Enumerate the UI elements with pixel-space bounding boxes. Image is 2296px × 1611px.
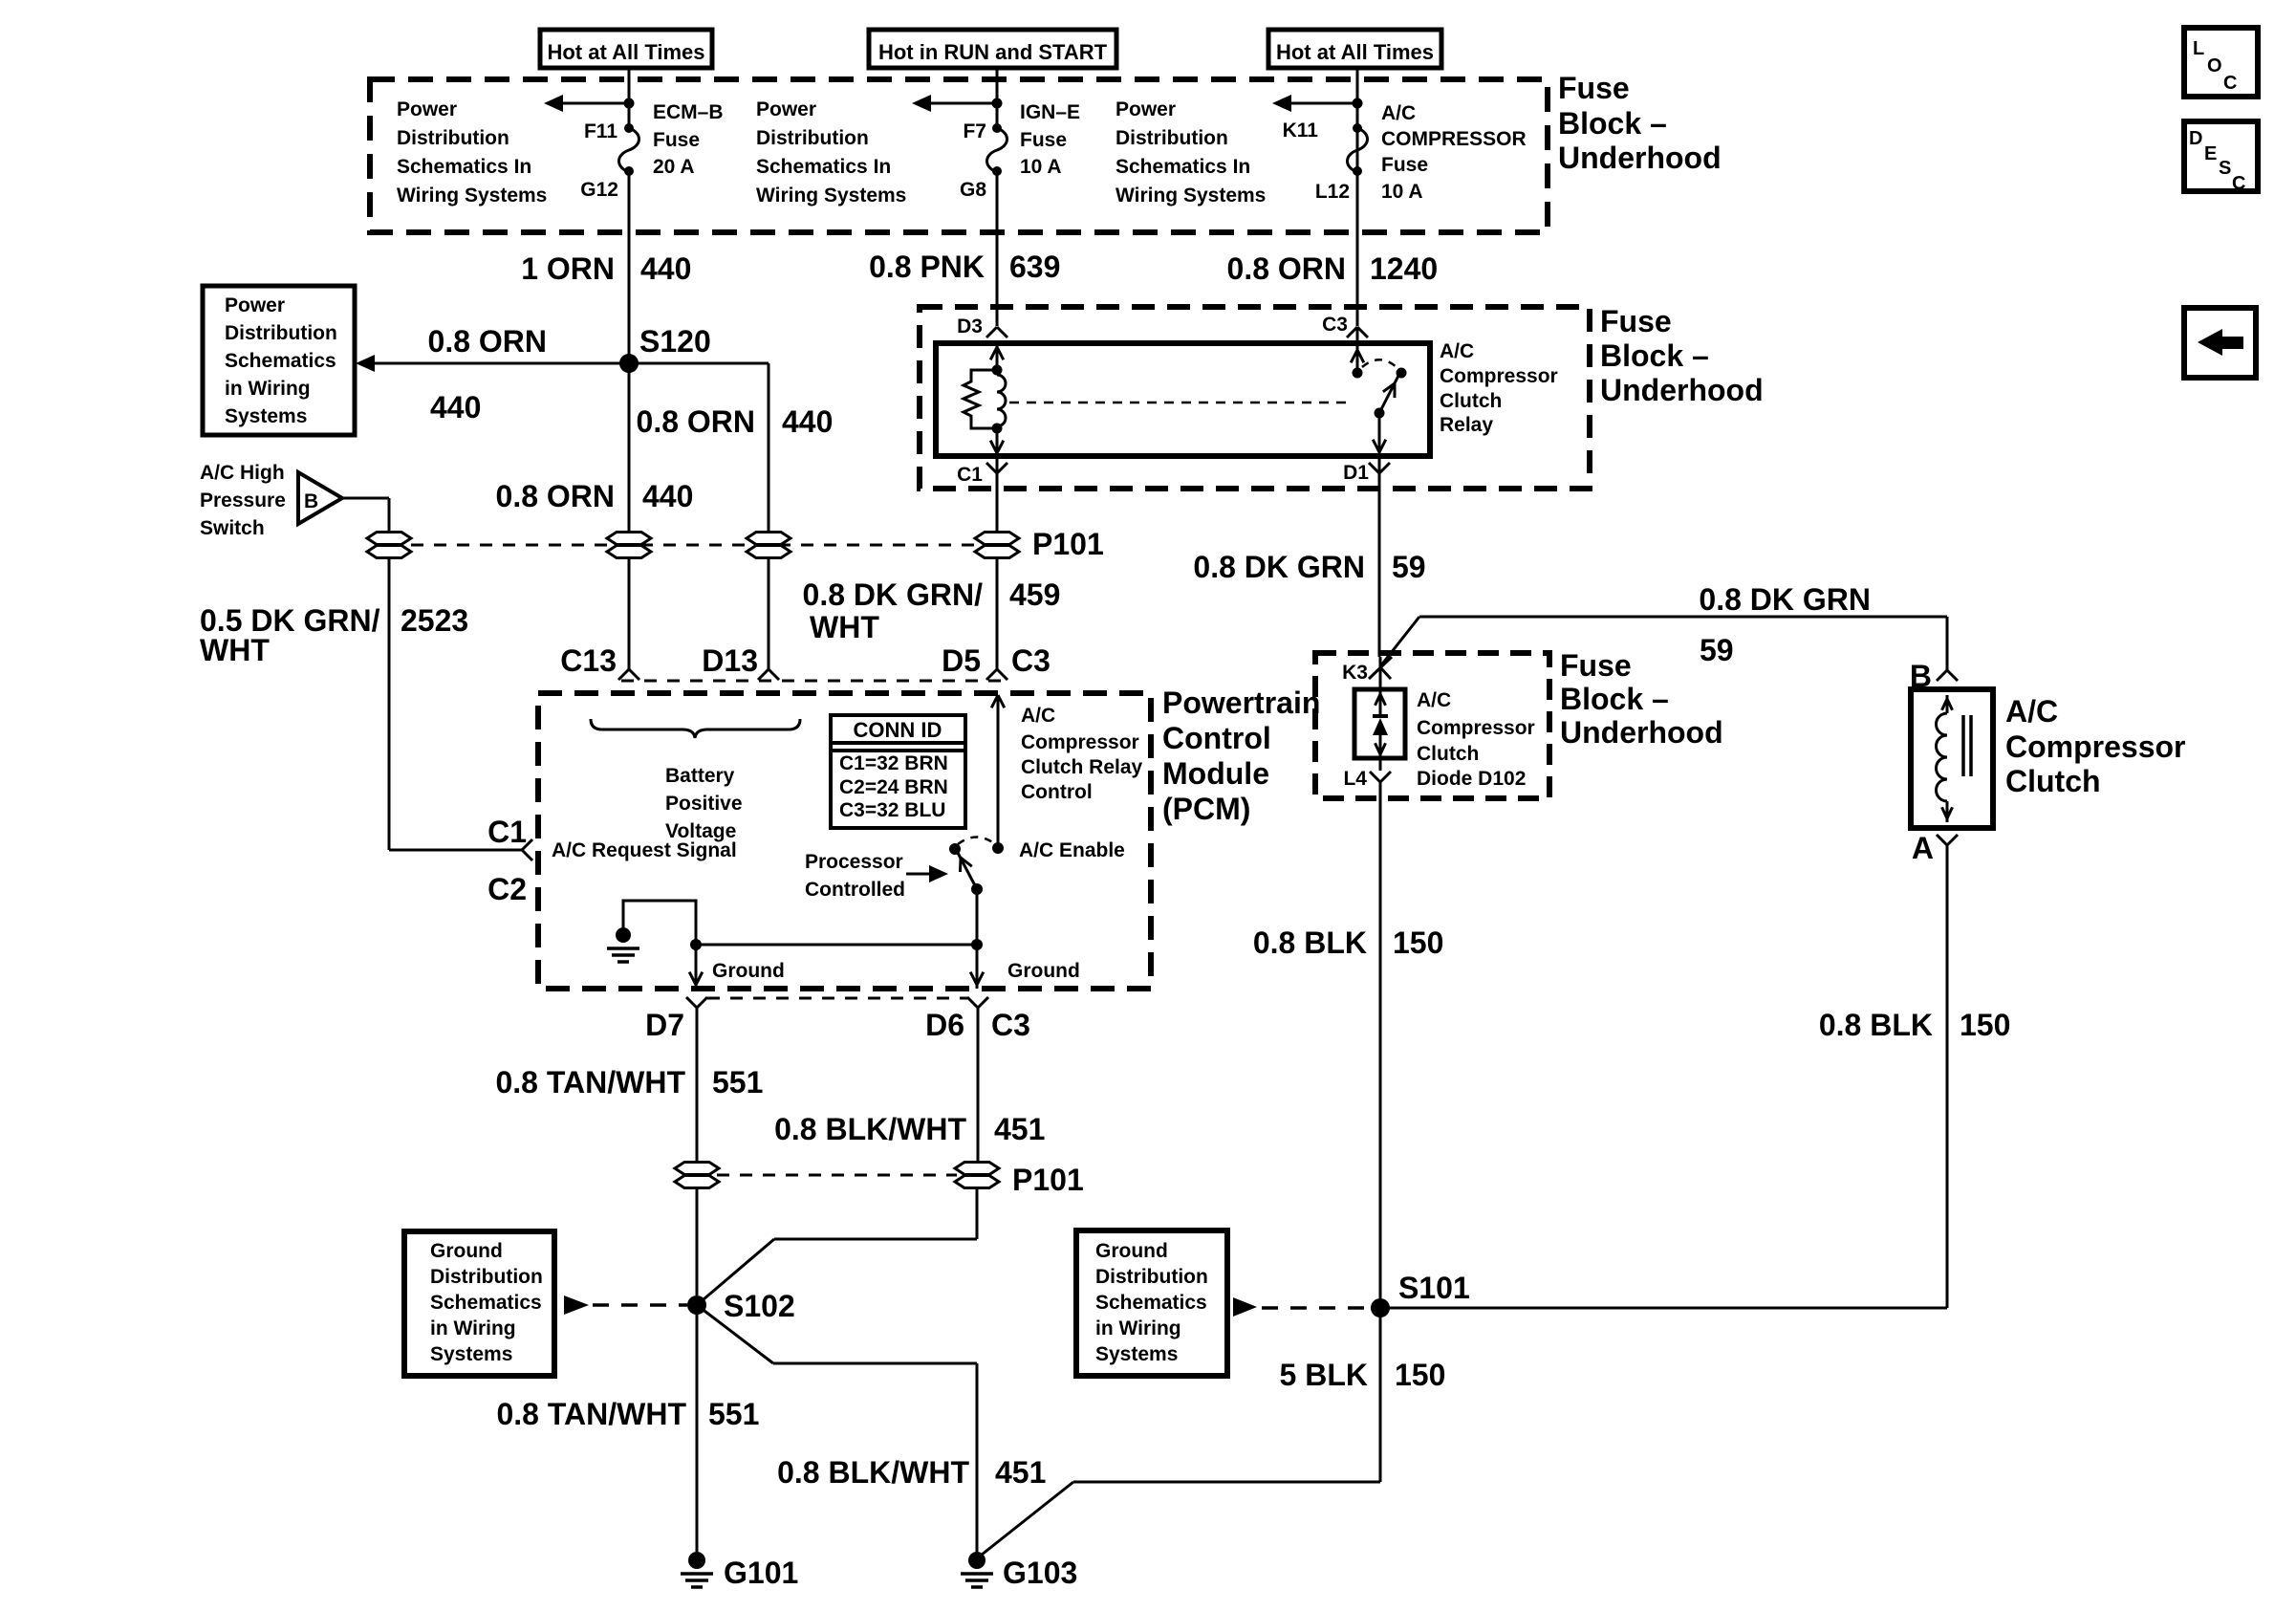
svg-text:Hot at All Times: Hot at All Times bbox=[547, 40, 704, 64]
svg-text:Fuse: Fuse bbox=[1600, 304, 1672, 338]
svg-text:Distribution: Distribution bbox=[225, 322, 337, 344]
svg-text:59: 59 bbox=[1392, 550, 1426, 584]
svg-text:C13: C13 bbox=[560, 643, 617, 678]
svg-text:59: 59 bbox=[1700, 633, 1734, 667]
svg-text:C3=32 BLU: C3=32 BLU bbox=[839, 799, 945, 821]
svg-text:in Wiring: in Wiring bbox=[1095, 1317, 1181, 1339]
svg-text:G12: G12 bbox=[580, 179, 618, 201]
svg-text:10 A: 10 A bbox=[1381, 181, 1423, 203]
svg-text:Schematics In: Schematics In bbox=[756, 156, 891, 178]
svg-text:Processor: Processor bbox=[805, 851, 903, 873]
svg-text:Fuse: Fuse bbox=[653, 129, 700, 151]
svg-text:Module: Module bbox=[1162, 756, 1269, 791]
svg-text:C1: C1 bbox=[487, 815, 527, 849]
svg-text:Power: Power bbox=[225, 294, 285, 316]
svg-text:A/C: A/C bbox=[1381, 102, 1416, 124]
svg-text:0.8 TAN/WHT: 0.8 TAN/WHT bbox=[496, 1397, 686, 1431]
svg-text:S101: S101 bbox=[1398, 1271, 1470, 1305]
svg-text:Systems: Systems bbox=[1095, 1343, 1178, 1365]
svg-text:Schematics: Schematics bbox=[430, 1292, 542, 1314]
svg-text:Pressure: Pressure bbox=[200, 490, 286, 512]
svg-text:Schematics In: Schematics In bbox=[397, 156, 531, 178]
svg-text:Switch: Switch bbox=[200, 517, 265, 539]
svg-text:Ground: Ground bbox=[1007, 960, 1080, 982]
svg-text:L: L bbox=[2193, 38, 2204, 59]
svg-text:Relay: Relay bbox=[1440, 414, 1493, 436]
svg-text:Wiring Systems: Wiring Systems bbox=[756, 185, 906, 207]
svg-text:C3: C3 bbox=[1011, 643, 1051, 678]
svg-text:in Wiring: in Wiring bbox=[430, 1317, 516, 1339]
svg-text:0.8 BLK/WHT: 0.8 BLK/WHT bbox=[774, 1112, 966, 1146]
svg-text:Block –: Block – bbox=[1558, 106, 1667, 141]
svg-text:P101: P101 bbox=[1012, 1163, 1084, 1197]
svg-text:B: B bbox=[304, 490, 318, 512]
svg-text:0.8 ORN: 0.8 ORN bbox=[428, 324, 547, 359]
svg-text:Distribution: Distribution bbox=[1095, 1266, 1208, 1288]
svg-text:Ground: Ground bbox=[1095, 1240, 1168, 1262]
svg-text:G103: G103 bbox=[1003, 1556, 1077, 1590]
svg-text:440: 440 bbox=[642, 479, 693, 513]
svg-text:440: 440 bbox=[640, 251, 691, 286]
svg-text:C: C bbox=[2232, 173, 2245, 194]
svg-text:ECM–B: ECM–B bbox=[653, 101, 724, 123]
svg-text:K3: K3 bbox=[1342, 662, 1368, 684]
svg-text:C1: C1 bbox=[957, 464, 983, 486]
svg-text:A/C Request Signal: A/C Request Signal bbox=[552, 839, 737, 861]
svg-text:0.8 ORN: 0.8 ORN bbox=[637, 404, 755, 439]
svg-text:K11: K11 bbox=[1283, 120, 1319, 142]
svg-text:Powertrain: Powertrain bbox=[1162, 686, 1320, 720]
svg-text:C1=32 BRN: C1=32 BRN bbox=[839, 752, 948, 774]
svg-text:(PCM): (PCM) bbox=[1162, 792, 1250, 826]
svg-text:Distribution: Distribution bbox=[1116, 127, 1228, 149]
svg-text:S120: S120 bbox=[639, 324, 711, 359]
svg-text:G8: G8 bbox=[960, 179, 986, 201]
svg-text:150: 150 bbox=[1395, 1358, 1445, 1392]
svg-text:in Wiring: in Wiring bbox=[225, 378, 311, 400]
svg-text:Systems: Systems bbox=[225, 405, 307, 427]
svg-text:0.8 TAN/WHT: 0.8 TAN/WHT bbox=[495, 1065, 685, 1099]
svg-text:Ground: Ground bbox=[430, 1240, 503, 1262]
svg-text:1240: 1240 bbox=[1370, 251, 1438, 286]
svg-text:D6: D6 bbox=[925, 1008, 964, 1042]
svg-text:Power: Power bbox=[1116, 98, 1176, 120]
svg-text:L12: L12 bbox=[1315, 181, 1350, 203]
svg-text:0.8 DK GRN: 0.8 DK GRN bbox=[1699, 582, 1871, 617]
svg-text:20 A: 20 A bbox=[653, 156, 695, 178]
svg-text:Fuse: Fuse bbox=[1558, 71, 1630, 105]
svg-text:Schematics: Schematics bbox=[1095, 1292, 1207, 1314]
svg-text:Fuse: Fuse bbox=[1381, 154, 1428, 176]
svg-text:S102: S102 bbox=[724, 1289, 795, 1323]
svg-text:Power: Power bbox=[756, 98, 816, 120]
svg-text:Battery: Battery bbox=[665, 765, 735, 787]
svg-text:0.8 DK GRN: 0.8 DK GRN bbox=[1193, 550, 1365, 584]
svg-text:COMPRESSOR: COMPRESSOR bbox=[1381, 128, 1527, 150]
svg-text:Block –: Block – bbox=[1560, 682, 1669, 716]
svg-text:A/C: A/C bbox=[1440, 340, 1474, 362]
svg-text:Wiring Systems: Wiring Systems bbox=[1116, 185, 1266, 207]
svg-text:Underhood: Underhood bbox=[1558, 141, 1722, 175]
svg-text:5 BLK: 5 BLK bbox=[1280, 1358, 1368, 1392]
svg-text:Block –: Block – bbox=[1600, 338, 1709, 373]
svg-text:WHT: WHT bbox=[810, 610, 879, 644]
svg-text:C2=24 BRN: C2=24 BRN bbox=[839, 776, 948, 798]
svg-text:0.8 DK GRN/: 0.8 DK GRN/ bbox=[803, 577, 984, 612]
svg-text:1 ORN: 1 ORN bbox=[521, 251, 615, 286]
svg-text:459: 459 bbox=[1009, 577, 1060, 612]
svg-text:Clutch: Clutch bbox=[1440, 390, 1502, 412]
svg-text:Diode D102: Diode D102 bbox=[1417, 768, 1526, 790]
svg-text:A/C: A/C bbox=[2005, 694, 2058, 729]
svg-text:D5: D5 bbox=[942, 643, 981, 678]
svg-text:639: 639 bbox=[1009, 250, 1060, 284]
svg-text:Fuse: Fuse bbox=[1020, 129, 1067, 151]
svg-text:Compressor: Compressor bbox=[1417, 717, 1535, 739]
svg-text:2523: 2523 bbox=[401, 603, 468, 638]
svg-text:Schematics: Schematics bbox=[225, 350, 336, 372]
svg-text:Fuse: Fuse bbox=[1560, 648, 1632, 683]
svg-text:P101: P101 bbox=[1032, 527, 1104, 561]
svg-text:C2: C2 bbox=[487, 872, 527, 906]
svg-text:Distribution: Distribution bbox=[397, 127, 509, 149]
svg-text:F7: F7 bbox=[963, 120, 986, 142]
svg-text:Power: Power bbox=[397, 98, 457, 120]
svg-text:D7: D7 bbox=[645, 1008, 684, 1042]
svg-text:Clutch Relay: Clutch Relay bbox=[1021, 756, 1143, 778]
svg-text:0.8 PNK: 0.8 PNK bbox=[869, 250, 985, 284]
svg-text:WHT: WHT bbox=[200, 633, 270, 667]
svg-text:D1: D1 bbox=[1343, 462, 1369, 484]
svg-text:0.8 BLK: 0.8 BLK bbox=[1253, 925, 1367, 960]
svg-text:Distribution: Distribution bbox=[430, 1266, 543, 1288]
svg-text:Schematics In: Schematics In bbox=[1116, 156, 1250, 178]
svg-text:10 A: 10 A bbox=[1020, 156, 1062, 178]
svg-text:451: 451 bbox=[995, 1455, 1046, 1490]
svg-text:551: 551 bbox=[708, 1397, 759, 1431]
svg-text:Compressor: Compressor bbox=[2005, 729, 2186, 764]
svg-text:CONN ID: CONN ID bbox=[854, 718, 942, 742]
svg-text:Control: Control bbox=[1162, 721, 1271, 755]
svg-text:G101: G101 bbox=[724, 1556, 798, 1590]
svg-text:0.8 BLK: 0.8 BLK bbox=[1819, 1008, 1933, 1042]
svg-text:Wiring Systems: Wiring Systems bbox=[397, 185, 547, 207]
svg-text:IGN–E: IGN–E bbox=[1020, 101, 1080, 123]
svg-text:A/C High: A/C High bbox=[200, 462, 285, 484]
svg-text:Underhood: Underhood bbox=[1560, 715, 1723, 750]
svg-text:440: 440 bbox=[782, 404, 833, 439]
svg-text:Underhood: Underhood bbox=[1600, 373, 1764, 407]
svg-text:D: D bbox=[2189, 128, 2202, 149]
svg-text:Systems: Systems bbox=[430, 1343, 512, 1365]
svg-text:0.8 ORN: 0.8 ORN bbox=[496, 479, 615, 513]
svg-text:C3: C3 bbox=[991, 1008, 1030, 1042]
svg-text:451: 451 bbox=[994, 1112, 1045, 1146]
svg-text:Controlled: Controlled bbox=[805, 879, 905, 901]
svg-text:L4: L4 bbox=[1343, 768, 1367, 790]
svg-text:C3: C3 bbox=[1322, 314, 1348, 336]
svg-text:Distribution: Distribution bbox=[756, 127, 869, 149]
svg-text:A: A bbox=[1912, 831, 1934, 865]
svg-text:D13: D13 bbox=[702, 643, 758, 678]
svg-text:Positive: Positive bbox=[665, 793, 743, 815]
svg-text:E: E bbox=[2204, 143, 2217, 164]
svg-text:0.8 BLK/WHT: 0.8 BLK/WHT bbox=[777, 1455, 969, 1490]
svg-text:S: S bbox=[2219, 158, 2231, 179]
svg-text:Ground: Ground bbox=[712, 960, 785, 982]
svg-text:440: 440 bbox=[430, 390, 481, 425]
svg-text:O: O bbox=[2207, 55, 2222, 76]
svg-text:Compressor: Compressor bbox=[1440, 365, 1558, 387]
svg-text:150: 150 bbox=[1393, 925, 1443, 960]
svg-text:Clutch: Clutch bbox=[1417, 743, 1479, 765]
svg-text:D3: D3 bbox=[957, 316, 983, 337]
svg-text:C: C bbox=[2223, 73, 2237, 94]
svg-text:Hot at All Times: Hot at All Times bbox=[1276, 40, 1434, 64]
svg-text:Clutch: Clutch bbox=[2005, 764, 2101, 798]
svg-text:551: 551 bbox=[712, 1065, 763, 1099]
svg-text:0.8 ORN: 0.8 ORN bbox=[1227, 251, 1346, 286]
svg-text:Control: Control bbox=[1021, 781, 1093, 803]
svg-text:Hot in RUN and START: Hot in RUN and START bbox=[878, 40, 1108, 64]
svg-text:A/C: A/C bbox=[1417, 689, 1451, 711]
svg-text:A/C: A/C bbox=[1021, 705, 1055, 727]
svg-text:Compressor: Compressor bbox=[1021, 731, 1139, 753]
svg-text:F11: F11 bbox=[584, 120, 617, 142]
svg-text:150: 150 bbox=[1960, 1008, 2010, 1042]
svg-text:A/C Enable: A/C Enable bbox=[1019, 839, 1125, 861]
